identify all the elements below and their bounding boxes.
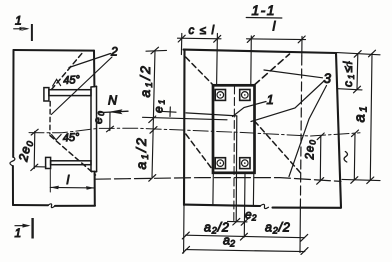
dashed vertical edge line between end plates [49, 102, 51, 135]
a2/2 dimensions [186, 235, 305, 238]
spread zone boundary vertical [301, 37, 303, 57]
centerline (dash-dot) across both views [29, 128, 360, 136]
force level extension line [143, 117, 228, 120]
wall edge break squiggle (left edge) [10, 157, 15, 166]
wall bottom edge break squiggle [48, 204, 55, 208]
svg-text:c≤l: c≤l [189, 25, 220, 37]
anchor bolt top-left [215, 90, 225, 101]
e2 dimension [228, 220, 248, 223]
svg-text:1: 1 [267, 92, 274, 107]
a2 overall dimension [186, 250, 305, 252]
dashed diagonal: left edge to plate bottom-left [186, 134, 213, 171]
dashed diagonal: plate right edge down-right [255, 121, 302, 174]
extension line from c dim to plate corner [216, 34, 219, 86]
wall outline (elevation, left view) [13, 50, 95, 206]
horizontal force line in plan [186, 113, 237, 116]
dashed diagonal: plate top-right up to edge [255, 54, 290, 85]
a1 dimension (far right) [370, 53, 372, 180]
svg-text:c1≤l: c1≤l [341, 60, 356, 87]
anchor bolt bottom-right [240, 158, 250, 169]
vertical dashed centerline of bolt group [233, 86, 236, 223]
upper bracket console: end plate [44, 88, 49, 101]
l dimension (right, lower) [353, 133, 356, 180]
2e0 dimension (left) [33, 131, 36, 168]
svg-text:l: l [67, 173, 70, 187]
svg-text:e2: e2 [245, 208, 257, 223]
svg-text:N: N [108, 94, 118, 108]
angle mark upper 45 [53, 79, 61, 86]
right side extension lines [337, 53, 380, 55]
force N line with arrowhead [100, 111, 129, 112]
plate edge extensions below plate [212, 174, 214, 205]
l dimension (left view bottom) [49, 170, 51, 193]
a1/2 dimension line (between views) [152, 50, 155, 178]
lower bracket console: end plate [46, 157, 51, 168]
svg-text:45°: 45° [63, 74, 81, 87]
anchor bolt bottom-left [215, 158, 225, 169]
svg-text:a2/2: a2/2 [265, 221, 291, 236]
svg-text:3: 3 [324, 71, 332, 86]
svg-text:45°: 45° [62, 131, 80, 144]
svg-text:a1/2: a1/2 [133, 136, 151, 170]
dashed diagonal: top-left corner to plate [186, 57, 214, 85]
svg-text:1: 1 [15, 226, 22, 240]
small cross tick near e1 [158, 111, 176, 112]
left extension for a2 dims [183, 205, 185, 253]
vertical force line [235, 116, 238, 222]
embedded plate (elevation edge view) [91, 86, 97, 171]
svg-text:a1/2: a1/2 [137, 64, 155, 98]
svg-text:e0: e0 [91, 110, 106, 124]
svg-text:2e0: 2e0 [16, 138, 35, 164]
svg-text:1-1: 1-1 [252, 2, 276, 18]
anchor plate (plan) [213, 85, 255, 173]
svg-text:2: 2 [110, 45, 118, 59]
anchor bolt top-right [240, 90, 250, 101]
plan view (section 1-1) outline [184, 50, 342, 208]
angle mark lower 45 [52, 135, 62, 140]
svg-text:a1: a1 [352, 104, 370, 122]
bolt column extension below plate [243, 174, 246, 237]
dashed 45-degree spread line (lower) [50, 136, 96, 176]
e0 dimension [109, 112, 111, 130]
c1<=l dimension (right) [356, 54, 359, 90]
plan bottom edge break squiggle [260, 204, 269, 208]
dimension l (top right) [247, 38, 306, 41]
upper bracket console: horizontal bar [49, 90, 91, 96]
2e0 dimension (plan, right of plate) [319, 136, 322, 181]
lower bracket console: horizontal bar [51, 161, 91, 165]
svg-text:1: 1 [15, 14, 22, 28]
extension line from l dim to plate corner [250, 36, 253, 85]
break squiggle on top right edge [347, 62, 350, 73]
svg-text:2e0: 2e0 [305, 139, 318, 161]
svg-text:l: l [273, 19, 277, 34]
dashed 45-degree spread line (upper) [52, 52, 84, 90]
long-dash bottom spread boundary line [95, 178, 342, 182]
